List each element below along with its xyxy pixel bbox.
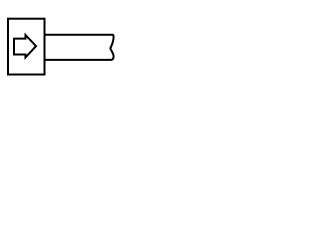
arrow symbol (output direction) bbox=[14, 35, 36, 58]
bus cable with break (torn edge) bbox=[46, 35, 114, 60]
connector box U1 bbox=[8, 19, 45, 75]
